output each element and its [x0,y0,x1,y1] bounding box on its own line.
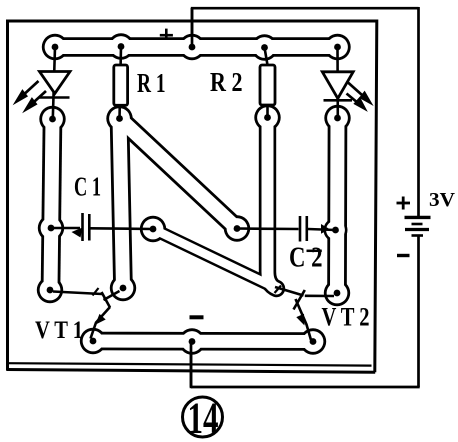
VD2 anode-cathode lead [336,47,339,118]
wire from battery - terminal down [417,236,420,387]
wire riser over 0V pad [190,341,193,387]
VD2 triangle [322,72,353,99]
capacitor C1 [51,213,153,241]
VT1 emitter lead with arrow [91,307,111,339]
pad hole: VT2 emitter on 0V bus [310,338,317,345]
trace: LED2 cathode column to VT2 collector [327,118,347,293]
pad hole: R1 bottom [116,115,123,122]
wire C1 left lead [51,227,80,230]
pad hole: LED1 anode on +V bus [52,44,59,51]
node + mark at top feed [160,29,173,39]
wire riser from bottom rail up to 0V pad [190,341,193,388]
pad hole: C1 left plate [48,225,55,232]
pad hole: VT1 emitter on 0V bus [90,338,97,345]
svg-text:R 1: R 1 [137,68,166,98]
LED VD2 [322,47,370,118]
wire top rail to battery + [191,7,419,10]
svg-text:C 1: C 1 [74,172,101,202]
C1 polarity arrow [72,228,83,238]
VT2 collector lead [305,294,334,297]
pad hole: VT1 collector [120,285,127,292]
wire C1 right lead [90,227,153,230]
VT1 collector lead [104,291,120,300]
C2 polarity arrow [321,224,330,234]
VD2 cathode bar [324,99,353,102]
pad hole: R2 bottom [264,114,271,121]
transistor VT2 [275,286,335,341]
trace: top +V bus [55,37,338,57]
pad rings (outer black discs) [37,33,351,354]
pad hole: LED1 cathode [49,116,56,123]
VD2 light emission arrows [347,83,371,109]
figure number 14 [183,394,223,442]
pad ring interiors (white discs) [40,36,348,352]
pad hole: C1 right plate [150,226,157,233]
VT1 base cross tick [93,288,99,296]
battery GB 3V [405,217,431,235]
VT2 base bar [294,290,305,310]
pad hole: VT1 base [47,287,54,294]
svg-text:V T 1: V T 1 [35,317,83,344]
pad hole: C2 left plate [234,225,241,232]
VT1 base bar [102,292,111,308]
battery + polarity mark [397,197,411,210]
transistor VT1 [53,288,120,339]
trace: bottom 0V bus [93,332,313,351]
svg-text:R 2: R 2 [210,67,243,97]
VT1 base lead [53,292,102,295]
trace hollow interiors (white inner layer) [51,47,338,342]
C2 plates [299,216,302,242]
wire right rail down to battery + terminal [417,7,420,217]
pad hole: VT2 collector [334,290,341,297]
trace: LED1 cathode column to VT1 base [51,119,53,290]
wire riser from +V pad up through frame [191,8,194,47]
svg-text:V T 2: V T 2 [322,303,370,332]
battery - polarity mark [397,254,410,257]
VD1 triangle [40,72,71,94]
wire C2 right lead [308,229,336,230]
board frame [7,21,377,372]
pad hole: C2 right plate [332,227,339,234]
trace: diagonal R1 pad to C2 pad [120,119,238,229]
LED VD1 [17,47,71,119]
VT2 emitter lead with arrow [296,299,312,340]
C1 plates [81,213,84,241]
VD1 light emission arrows [17,81,47,110]
resistor R1 [114,47,128,119]
wire riser over +V pad [191,8,194,47]
C2 overstrike dash [307,250,322,253]
wire bottom rail [191,386,420,389]
trace: R1 column to VT1 collector [120,119,124,289]
node - mark at bottom feed [190,315,204,319]
pad hole: LED2 cathode [334,115,341,122]
svg-text:14: 14 [188,394,219,442]
VD1 anode-cathode lead [53,47,55,119]
trace: thin diagonal C1 pad to VT2 base [153,229,276,288]
pad hole: LED2 anode on +V bus [334,44,341,51]
svg-text:3V: 3V [429,189,456,211]
VD1 cathode bar [40,96,70,99]
pad hole: R2 top on +V bus [261,44,268,51]
VT2 base lead [275,287,304,296]
pad hole: +V feed node [189,44,196,51]
wire C2 left lead [237,227,299,230]
capacitor C2 [237,216,336,242]
pad hole: R1 top on +V bus [118,43,125,50]
svg-text:C 2: C 2 [289,243,323,274]
resistor R2 [260,48,275,118]
pad hole: 0V feed node [189,338,196,345]
trace: R2 column hooking to VT2 base [268,118,277,289]
VT2 base cross tick [275,286,282,294]
